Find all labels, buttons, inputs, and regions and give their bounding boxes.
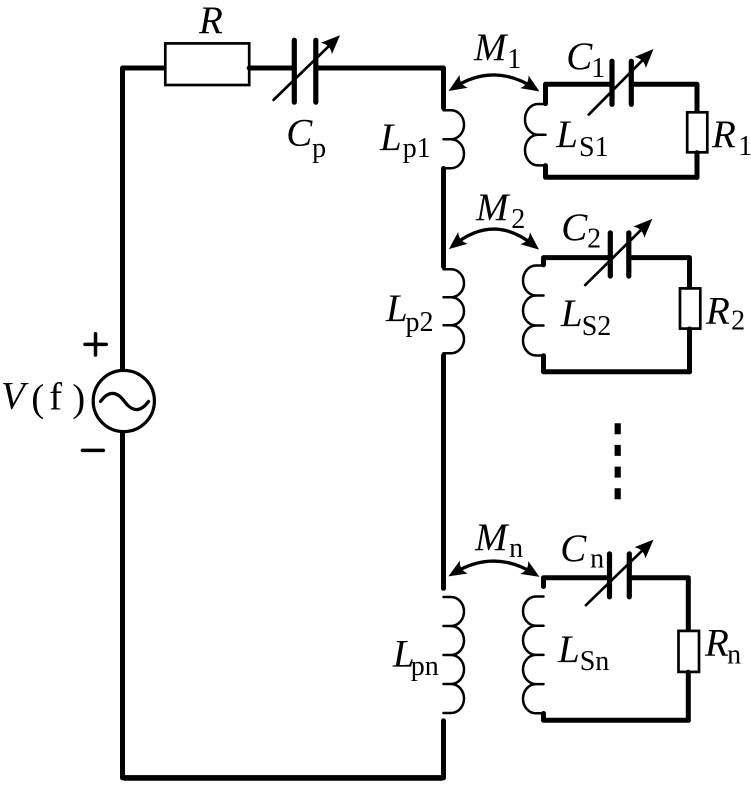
svg-text:L: L (379, 116, 402, 159)
svg-text:2: 2 (511, 204, 525, 235)
svg-text:L: L (555, 113, 578, 156)
svg-text:p: p (312, 133, 326, 164)
svg-text:R: R (198, 0, 223, 42)
svg-text:R: R (711, 113, 736, 156)
svg-text:2: 2 (587, 224, 601, 255)
svg-text:n: n (590, 544, 604, 575)
svg-text:L: L (385, 287, 408, 330)
svg-text:pn: pn (411, 651, 439, 682)
svg-text:n: n (509, 533, 523, 564)
svg-text:1: 1 (591, 53, 605, 84)
svg-text:S2: S2 (582, 311, 612, 342)
svg-text:C: C (286, 111, 313, 154)
svg-text:R: R (704, 622, 729, 665)
svg-text:2: 2 (731, 306, 745, 337)
svg-text:S1: S1 (579, 132, 609, 163)
svg-text:L: L (557, 628, 580, 671)
svg-text:C: C (561, 206, 588, 249)
svg-text:M: M (474, 516, 510, 559)
svg-text:V: V (1, 375, 29, 418)
svg-text:Sn: Sn (580, 646, 610, 677)
svg-text:p1: p1 (403, 133, 431, 164)
svg-text:C: C (566, 35, 593, 78)
svg-text:p2: p2 (406, 307, 434, 338)
svg-text:f: f (49, 375, 62, 418)
svg-text:R: R (705, 290, 730, 333)
svg-text:(: ( (31, 377, 44, 420)
svg-text:1: 1 (507, 44, 521, 75)
svg-text:n: n (727, 640, 741, 671)
svg-text:1: 1 (738, 131, 751, 162)
svg-text:M: M (475, 186, 511, 229)
svg-text:): ) (72, 377, 85, 420)
svg-text:M: M (473, 26, 509, 69)
svg-text:L: L (560, 292, 583, 335)
svg-text:C: C (560, 527, 587, 570)
